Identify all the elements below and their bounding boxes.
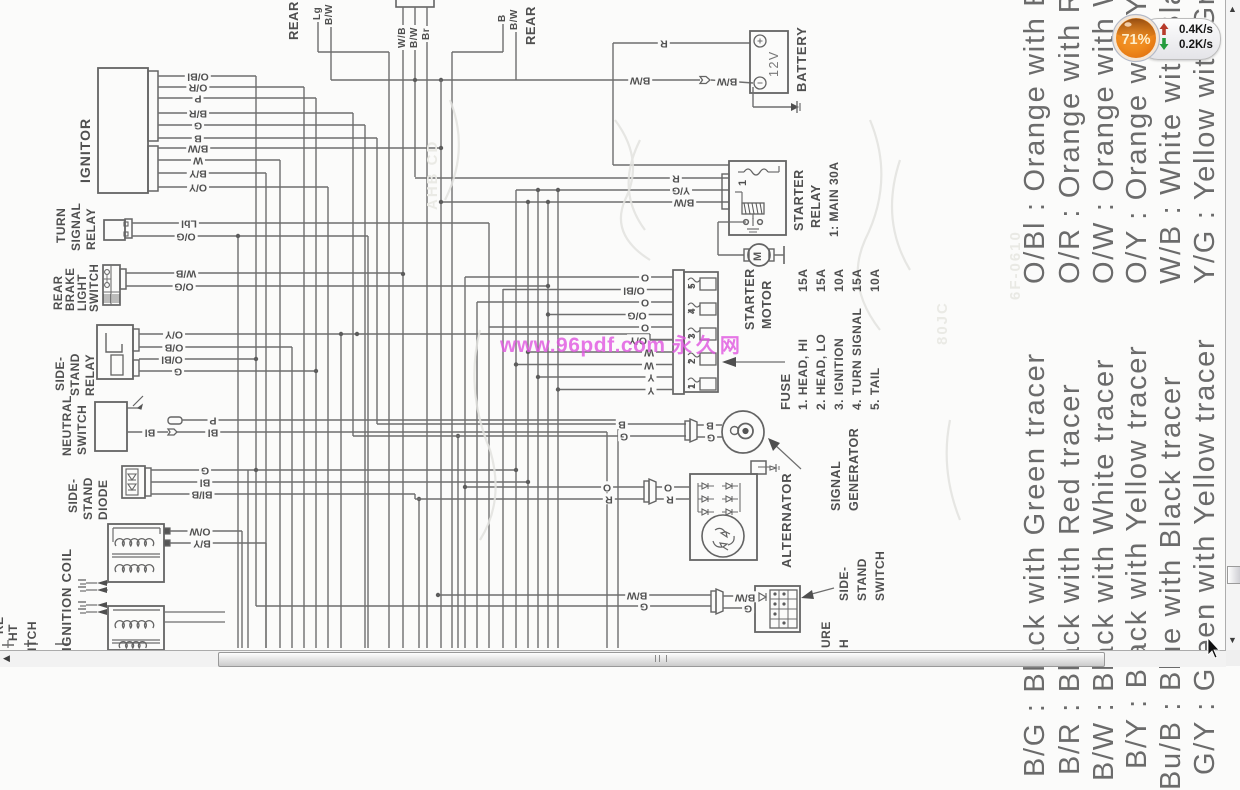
svg-text:71%: 71%: [1121, 32, 1150, 48]
